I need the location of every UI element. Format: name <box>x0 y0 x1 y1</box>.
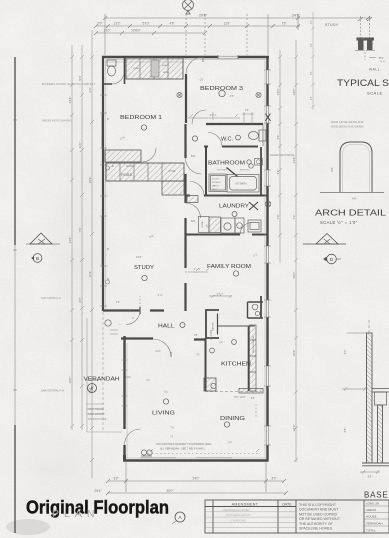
svg-text:BEDROOM 3: BEDROOM 3 <box>200 86 243 92</box>
svg-text:7'6": 7'6" <box>78 227 82 232</box>
svg-text:HALL: HALL <box>158 324 175 330</box>
dimension chain right verticals <box>278 40 298 462</box>
wall cavity inner lines <box>106 60 267 459</box>
svg-text:16'6": 16'6" <box>292 350 296 357</box>
svg-text:7'6": 7'6" <box>281 22 286 26</box>
dimension chain top line 1 <box>103 14 372 55</box>
grid bubble top <box>183 0 194 14</box>
svg-text:5'10": 5'10" <box>142 22 149 26</box>
svg-text:KITCHEN: KITCHEN <box>221 362 251 368</box>
svg-text:C WINDOWS: C WINDOWS <box>230 518 246 522</box>
west wall winder circles <box>106 166 110 170</box>
laundry linen closet <box>187 196 198 203</box>
svg-text:4'6": 4'6" <box>309 96 313 100</box>
wall bathroom south / laundry north <box>186 195 268 197</box>
svg-text:HOUSE: HOUSE <box>366 515 377 519</box>
wall wc south <box>204 146 258 148</box>
svg-text:PLAN: PLAN <box>52 508 99 520</box>
svg-text:3'0": 3'0" <box>309 20 313 24</box>
base detail lintel lines <box>372 389 389 393</box>
bathroom vanity <box>209 174 227 192</box>
wall north outer <box>102 56 269 59</box>
svg-text:BEDROOM 1: BEDROOM 1 <box>120 115 162 121</box>
svg-text:BATHROOM: BATHROOM <box>208 161 246 167</box>
svg-text:30'0": 30'0" <box>166 489 173 493</box>
areas column <box>364 506 389 526</box>
wall living west <box>123 336 125 461</box>
svg-text:VACUUM INSUL BLANKET TO EX: VACUUM INSUL BLANKET TO EXTERNAL WALL <box>156 443 213 446</box>
svg-text:12'0": 12'0" <box>68 377 72 384</box>
svg-text:ROBE: ROBE <box>168 169 176 173</box>
verandah outline <box>87 312 122 432</box>
kitchen lower cupboard <box>204 378 216 391</box>
svg-text:6'0" BATH: 6'0" BATH <box>236 183 247 186</box>
svg-text:ALL VERANDAH - SEE T HELP A: ALL VERANDAH - SEE T HELP A WALL <box>160 448 206 451</box>
svg-text:2'6": 2'6" <box>368 475 373 479</box>
wall bedroom1/bedroom3 divider <box>185 74 187 123</box>
kitchen bench top line <box>218 325 255 327</box>
svg-text:8'3": 8'3" <box>309 71 313 75</box>
svg-text:13'3": 13'3" <box>113 22 120 26</box>
svg-text:BASE: BASE <box>364 491 389 500</box>
svg-text:2'0": 2'0" <box>97 22 102 26</box>
wall west outer <box>102 56 104 311</box>
bathroom accessories right of label <box>247 160 251 164</box>
section marker triangle right <box>303 234 346 245</box>
verandah steps <box>86 404 104 414</box>
hall corner post <box>123 455 126 461</box>
wc toilet <box>249 130 267 141</box>
ensuite walls top-left <box>104 58 125 84</box>
wall bathroom west <box>205 146 207 196</box>
dimension chain bottom <box>106 462 288 495</box>
svg-text:20"x16": 20"x16" <box>212 179 219 181</box>
svg-text:820: 820 <box>191 154 196 158</box>
svg-text:4' 0': 4' 0' <box>158 293 163 297</box>
base detail wall right vertical <box>378 405 383 463</box>
datum circle A <box>172 512 185 524</box>
section marker triangle B left <box>26 233 60 244</box>
svg-text:ROBE: ROBE <box>133 68 140 70</box>
copyright note <box>299 503 341 531</box>
svg-text:K: K <box>107 247 109 251</box>
powder room <box>248 296 264 318</box>
wall laundry south <box>186 234 268 236</box>
svg-text:29'6": 29'6" <box>199 14 208 18</box>
bathroom shower arrow <box>227 168 238 177</box>
svg-text:VANITY: VANITY <box>212 185 220 188</box>
window glazing east wall <box>264 70 271 445</box>
robe band study north <box>106 163 184 181</box>
svg-text:SHOWER: SHOWER <box>217 170 227 172</box>
dimension chain left verticals <box>70 30 94 478</box>
wall east outer segments <box>266 57 268 461</box>
kitchen bench bottom right <box>239 389 263 394</box>
svg-text:5'6": 5'6" <box>251 396 255 400</box>
kitchen bench dashed <box>205 391 262 393</box>
west wall jamb ticks <box>100 95 107 306</box>
svg-text:4'6": 4'6" <box>230 94 235 98</box>
svg-text:STUDY: STUDY <box>134 265 154 271</box>
svg-text:DOOR (LINTEL) DETAIL FLAT: DOOR (LINTEL) DETAIL FLAT <box>331 121 364 124</box>
dimension chain right margin <box>311 12 315 110</box>
svg-text:LIVING: LIVING <box>152 411 175 417</box>
wall bedroom3 south / wc north <box>206 123 263 125</box>
svg-text:VERANDAH: VERANDAH <box>366 522 383 526</box>
misc small dims inside plan <box>119 77 258 439</box>
svg-text:4'6": 4'6" <box>169 22 174 26</box>
svg-text:9'0": 9'0" <box>88 87 92 92</box>
datum circle B <box>31 254 42 263</box>
svg-text:ARCH DETAIL: ARCH DETAIL <box>315 209 387 218</box>
svg-text:NOTE B.M SLAB: NOTE B.M SLAB <box>88 418 107 421</box>
svg-text:+ 4. 4.: + 4. 4. <box>216 292 224 296</box>
svg-text:ROBE: ROBE <box>121 173 133 177</box>
robe band bedroom1 south <box>105 150 141 162</box>
svg-text:9'6": 9'6" <box>276 169 280 174</box>
svg-text:24'0": 24'0" <box>192 477 199 481</box>
svg-text:WINDOW: WINDOW <box>240 170 251 172</box>
svg-text:A REVISED AS NOTED: A REVISED AS NOTED <box>222 508 250 512</box>
robe vertical east <box>162 181 184 195</box>
wall central spine <box>184 124 186 311</box>
ensuite toilet <box>107 60 116 76</box>
svg-text:CUPBD: CUPBD <box>202 220 204 228</box>
base detail centreline <box>368 320 370 333</box>
svg-text:2'6": 2'6" <box>116 300 120 304</box>
base detail wall main vertical <box>367 333 373 463</box>
svg-text:SPACELINE HOMES: SPACELINE HOMES <box>299 527 333 531</box>
svg-text:NOT BE USED COPIED: NOT BE USED COPIED <box>299 512 338 516</box>
wall kitchen west <box>205 338 207 391</box>
base detail footing <box>362 463 389 466</box>
svg-text:6'8": 6'8" <box>330 167 334 172</box>
svg-text:D: D <box>330 257 334 263</box>
svg-text:ROBE: ROBE <box>126 164 134 168</box>
svg-text:FAMILY ROOM: FAMILY ROOM <box>207 264 252 270</box>
svg-text:29'6": 29'6" <box>94 489 101 493</box>
svg-text:SAW CENTRAL M: SAW CENTRAL M <box>41 297 61 300</box>
svg-text:LONG 28: LONG 28 <box>366 502 379 506</box>
svg-text:14'6": 14'6" <box>292 157 296 164</box>
amendment row entries faint <box>222 508 251 523</box>
svg-text:15'0": 15'0" <box>292 272 296 279</box>
svg-text:4'0": 4'0" <box>352 197 357 201</box>
svg-text:15'6": 15'6" <box>88 177 92 184</box>
svg-text:13'6": 13'6" <box>68 97 72 104</box>
svg-text:3'8": 3'8" <box>194 333 198 337</box>
svg-text:NOM: NOM <box>380 61 385 63</box>
svg-text:SCALE ½" = 1'0": SCALE ½" = 1'0" <box>320 220 358 225</box>
svg-text:3'0": 3'0" <box>343 350 347 355</box>
svg-text:24'0: 24'0 <box>125 375 131 379</box>
svg-text:(5): (5) <box>146 378 149 382</box>
svg-text:THIS IS A COPYRIGHT: THIS IS A COPYRIGHT <box>299 503 337 507</box>
title block table <box>205 500 389 533</box>
svg-text:B KITCHEN LAYOUT: B KITCHEN LAYOUT <box>226 513 251 517</box>
svg-text:5'6" 10'0": 5'6" 10'0" <box>234 395 246 399</box>
svg-text:HOOD DETAIL IS AS SHOWN: HOOD DETAIL IS AS SHOWN <box>331 126 364 129</box>
svg-text:(5): (5) <box>228 440 231 444</box>
ceiling light circles <box>141 90 253 427</box>
verandah corner post <box>105 320 111 326</box>
east wall window X marks <box>266 114 271 122</box>
svg-text:AMENDMENT: AMENDMENT <box>232 502 259 506</box>
sheet left border <box>14 57 16 533</box>
svg-text:13'0": 13'0" <box>276 89 280 96</box>
svg-text:4'10": 4'10" <box>155 349 161 353</box>
svg-text:11'0": 11'0" <box>78 142 82 149</box>
svg-text:14'6": 14'6" <box>68 237 72 244</box>
bathroom east inner wall <box>260 147 262 195</box>
svg-text:DINING: DINING <box>220 416 245 422</box>
base detail lintel box <box>375 392 387 405</box>
scattered small dimension marks <box>110 112 259 454</box>
arch detail drawing <box>320 142 384 193</box>
svg-text:3'10": 3'10" <box>103 29 110 33</box>
svg-text:4' + 4': 4' + 4' <box>194 267 201 271</box>
svg-text:DOUBLE: DOUBLE <box>212 182 221 184</box>
svg-text:24'6": 24'6" <box>292 14 301 18</box>
svg-text:STEP DOWN P: STEP DOWN P <box>88 413 105 416</box>
typical section dim 6.5 <box>365 52 376 60</box>
svg-text:K: K <box>107 277 109 281</box>
svg-text:9'6": 9'6" <box>309 43 313 47</box>
datum circle D <box>323 254 341 264</box>
svg-text:REFRIGERATOR: REFRIGERATOR <box>252 335 255 353</box>
svg-text:VERANDAH: VERANDAH <box>84 377 120 383</box>
svg-text:6½": 6½" <box>379 56 384 60</box>
door arc bedroom3 <box>186 57 203 74</box>
svg-text:7'9": 7'9" <box>276 214 280 219</box>
door label marks K <box>107 117 114 281</box>
kitchen door circle <box>210 348 215 353</box>
svg-text:DATE: DATE <box>282 502 292 506</box>
svg-text:11'9": 11'9" <box>224 22 231 26</box>
svg-text:3'0": 3'0" <box>113 477 118 481</box>
kitchen bench east <box>250 325 257 391</box>
laundry fixtures row <box>199 217 262 234</box>
north wall windows <box>218 55 238 59</box>
living fireplace fixture bottom <box>141 450 152 456</box>
svg-text:4'6": 4'6" <box>276 134 280 139</box>
svg-text:TOTAL: TOTAL <box>366 529 376 533</box>
bathroom bath <box>227 175 259 193</box>
svg-text:DOCUMENT AND MUST: DOCUMENT AND MUST <box>299 508 339 512</box>
wall hall south <box>121 339 206 340</box>
robe row top <box>126 58 183 79</box>
svg-text:13'9": 13'9" <box>292 425 296 432</box>
svg-text:10'6½": 10'6½" <box>131 29 141 33</box>
svg-text:WALL: WALL <box>369 68 380 72</box>
svg-text:7'9": 7'9" <box>292 214 296 219</box>
wall south outer <box>123 459 269 462</box>
svg-text:UNIT: UNIT <box>212 189 218 191</box>
svg-text:ROBE: ROBE <box>163 72 170 74</box>
svg-text:820: 820 <box>191 219 196 223</box>
typical section wall detail <box>358 16 372 38</box>
svg-text:LAUNDRY: LAUNDRY <box>219 204 249 210</box>
dimension chain top line 3 <box>94 31 207 35</box>
svg-text:9'0": 9'0" <box>78 297 82 302</box>
svg-text:SHELF: SHELF <box>162 65 170 67</box>
dimension chain top line 2 <box>94 24 300 28</box>
wall hall north <box>103 309 164 311</box>
svg-text:TYPICAL S: TYPICAL S <box>337 78 389 88</box>
svg-text:SEWER VENT DETAIL: SEWER VENT DETAIL <box>270 154 295 157</box>
svg-text:MODERN MICRO SHAVING CABINET: MODERN MICRO SHAVING CABINET <box>42 82 96 86</box>
svg-text:13'0": 13'0" <box>292 89 296 96</box>
svg-text:4'6": 4'6" <box>245 108 249 112</box>
svg-text:OR RETAINED WITHOUT: OR RETAINED WITHOUT <box>299 517 341 521</box>
kitchen pantry C-shape <box>206 310 219 338</box>
svg-text:AREAS: AREAS <box>366 508 376 512</box>
svg-text:5'3": 5'3" <box>78 75 82 80</box>
verandah downpipe circle <box>88 384 97 393</box>
svg-text:VERT HOUSE: VERT HOUSE <box>88 408 104 411</box>
svg-text:STUDY: STUDY <box>325 23 339 27</box>
svg-text:K: K <box>112 164 114 168</box>
svg-text:W.C.: W.C. <box>221 137 233 143</box>
svg-text:PANTRY: PANTRY <box>209 330 213 341</box>
door arc bedroom1 <box>142 148 156 162</box>
svg-text:HIDDEN MICRO SHAVING: HIDDEN MICRO SHAVING <box>42 120 71 123</box>
wall light symbols bedroom3 <box>177 92 261 97</box>
base detail dims <box>342 333 366 391</box>
svg-text:4'6" A: 4'6" A <box>210 113 217 117</box>
svg-text:10'6": 10'6" <box>88 271 92 278</box>
laundry window X mark <box>249 202 258 210</box>
svg-text:SCALE: SCALE <box>367 91 383 96</box>
svg-text:K: K <box>107 117 109 121</box>
svg-text:3'0": 3'0" <box>271 477 276 481</box>
svg-text:B: B <box>36 256 39 261</box>
kitchen east bench wall <box>248 326 250 391</box>
svg-text:10'6": 10'6" <box>136 255 142 259</box>
svg-text:SAW CENTRAL P. H: SAW CENTRAL P. H <box>41 390 64 393</box>
svg-text:6'8": 6'8" <box>343 428 347 433</box>
svg-text:THE AUTHORITY OF: THE AUTHORITY OF <box>299 522 333 526</box>
